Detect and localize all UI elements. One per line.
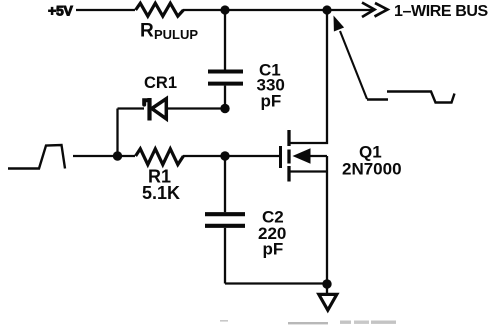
ground (326, 284, 328, 294)
resistor R1 (136, 149, 184, 165)
svg-text:pF: pF (261, 92, 282, 111)
scan artifact: tiny dash bottom left (220, 320, 228, 322)
wire: diode branch horizontal (118, 107, 226, 109)
node: top rail / Q1 drain / bus (322, 5, 331, 14)
node: gate node (center line crosses input line) (220, 151, 229, 160)
svg-text:CR1: CR1 (144, 74, 177, 92)
resistor RPULUP (136, 3, 184, 16)
bus waveform sketch (367, 98, 388, 100)
svg-text:pF: pF (263, 240, 284, 259)
svg-text:5.1K: 5.1K (142, 183, 180, 203)
wire: center vertical, top node to C1 (224, 10, 226, 70)
bus chevron arrows (362, 3, 375, 18)
diode CR1 (cathode bar with bent tip) (147, 98, 151, 121)
svg-text:2N7000: 2N7000 (342, 160, 402, 179)
node: ground junction (322, 279, 331, 288)
node: input / diode branch junction (113, 151, 122, 160)
transistor Q1 body arrow (293, 148, 311, 163)
scan artifact: faint gray bar bottom center (288, 322, 328, 324)
wire: gate node down to C2 (224, 156, 226, 212)
wire: C1 to node B (224, 86, 226, 109)
wire: +5V rail to 1-wire bus (top) (76, 9, 372, 11)
capacitor C1 (208, 70, 243, 74)
arrow pointing to bus node (340, 31, 367, 99)
wire: bottom rail to ground node (225, 282, 327, 284)
wire: input line to gate (73, 155, 279, 157)
node B: diode branch joins center line (220, 104, 229, 113)
transistor Q1 gate bar (279, 146, 282, 168)
svg-text:1–WIRE BUS: 1–WIRE BUS (394, 3, 489, 20)
transistor Q1 source stub and source wire (289, 156, 327, 284)
wire: C2 to bottom rail (224, 228, 226, 284)
svg-text:PULUP: PULUP (154, 27, 198, 42)
svg-text:R: R (140, 21, 154, 42)
node: top rail / C1 branch (220, 5, 229, 14)
wire: diode branch left vertical (116, 109, 118, 157)
transistor Q1 channel segments (287, 130, 290, 182)
svg-text:+5V: +5V (48, 3, 74, 19)
scan artifact: faint marks bottom right (340, 321, 351, 324)
capacitor C2 (205, 212, 245, 216)
input pulse waveform symbol (8, 145, 65, 169)
transistor Q1 drain stub and drain wire (289, 10, 327, 143)
